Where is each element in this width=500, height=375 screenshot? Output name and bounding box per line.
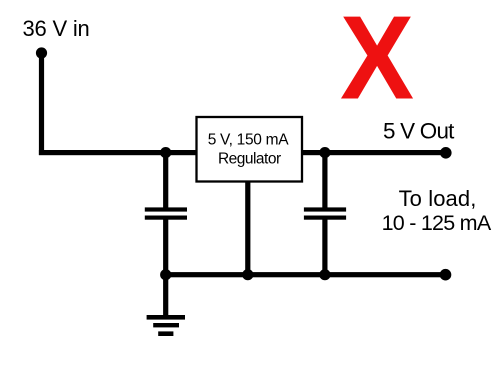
junction: bottom rail / regulator pin node: [242, 269, 253, 280]
wire: input vertical drop: [39, 53, 44, 155]
ground bar 1: [147, 315, 185, 320]
capacitor C1 top plate: [145, 207, 187, 211]
junction: bottom rail / C2 node: [319, 269, 330, 280]
wire: top rail left segment: [39, 150, 198, 155]
junction: C2 top node: [319, 147, 330, 158]
svg-text:To load,: To load,: [399, 186, 477, 211]
regulator U1 box: [197, 117, 303, 182]
wire: ground lead: [163, 275, 168, 317]
wire: top rail right segment: [302, 150, 446, 155]
capacitor C2 top plate: [304, 207, 346, 211]
capacitor C2 bottom plate: [304, 216, 346, 220]
wire: regulator ground pin: [245, 181, 250, 277]
ground bar 3: [158, 331, 173, 336]
wire: C2 top lead: [322, 155, 327, 209]
ground bar 2: [153, 323, 179, 327]
svg-text:36 V in: 36 V in: [23, 16, 90, 41]
svg-text:5 V, 150 mA: 5 V, 150 mA: [208, 132, 290, 149]
svg-text:X: X: [340, 0, 414, 124]
wire: C1 bottom lead: [163, 220, 168, 275]
node: 5V output terminal: [440, 147, 452, 159]
capacitor C1 bottom plate: [145, 216, 187, 220]
svg-text:Regulator: Regulator: [218, 151, 281, 168]
svg-text:10 - 125 mA: 10 - 125 mA: [382, 211, 492, 235]
node: input terminal: [36, 47, 47, 58]
junction: C1 top node: [160, 147, 171, 158]
node: return terminal: [440, 269, 452, 281]
junction: bottom rail / C1 node: [160, 269, 171, 280]
wire: C1 top lead: [163, 155, 168, 209]
wire: bottom rail: [166, 272, 446, 277]
wire: C2 bottom lead: [322, 220, 327, 275]
